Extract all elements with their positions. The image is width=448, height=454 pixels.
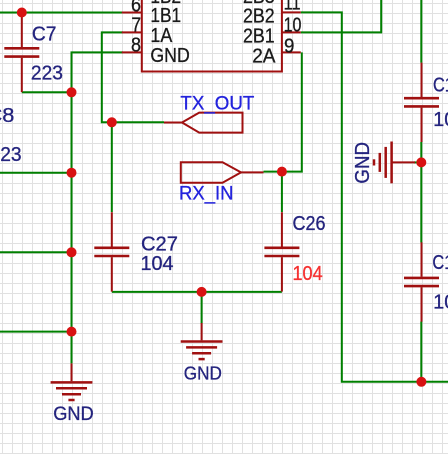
pin 9 stub bbox=[282, 51, 301, 53]
value 104 of C15 (clipped) bbox=[433, 109, 448, 131]
wire RX node down to C26 bbox=[281, 172, 283, 212]
ground symbol right (rotated) bbox=[374, 142, 415, 184]
junction RX node bbox=[277, 167, 287, 177]
wire left rail row B bbox=[0, 251, 72, 253]
value 104 of C16 (clipped) bbox=[433, 291, 448, 313]
pin number 8 bbox=[131, 35, 141, 57]
svg-text:2A: 2A bbox=[252, 45, 276, 67]
pin name 1B2 (cut at top) bbox=[150, 0, 181, 8]
label C26 bbox=[293, 213, 326, 235]
svg-text:C16: C16 bbox=[432, 252, 448, 274]
pin 11 stub bbox=[282, 11, 301, 13]
svg-text:GND: GND bbox=[53, 403, 93, 425]
wire C27-C26 bottom row bbox=[112, 291, 282, 293]
svg-text:1B1: 1B1 bbox=[150, 5, 181, 27]
wire right gnd link bbox=[414, 161, 421, 163]
label C15 (clipped at right) bbox=[433, 74, 448, 96]
svg-text:104: 104 bbox=[433, 109, 448, 131]
pin name 1A bbox=[150, 25, 172, 47]
svg-text:8: 8 bbox=[131, 35, 141, 57]
svg-text:C8: C8 bbox=[0, 105, 14, 127]
svg-text:TX_OUT: TX_OUT bbox=[180, 93, 254, 114]
capacitor C15 bbox=[404, 63, 439, 142]
net label RX_IN bbox=[179, 184, 234, 205]
value 223 of C7 bbox=[31, 63, 63, 85]
op-amp U1 body (IC box, top cut off) bbox=[142, 0, 282, 72]
net label TX_OUT bbox=[180, 93, 254, 114]
svg-text:2B2: 2B2 bbox=[243, 5, 275, 27]
svg-text:10: 10 bbox=[284, 15, 302, 37]
svg-text:104: 104 bbox=[293, 263, 323, 285]
pin name GND bbox=[150, 45, 189, 67]
svg-text:C26: C26 bbox=[293, 213, 326, 235]
pin name 2B3 (cut at top) bbox=[243, 0, 275, 8]
junction left rail A bbox=[67, 168, 77, 178]
svg-text:RX_IN: RX_IN bbox=[179, 184, 234, 205]
junction right gnd bbox=[416, 157, 426, 167]
svg-text:223: 223 bbox=[0, 144, 22, 166]
pin name 2A bbox=[252, 45, 276, 67]
svg-text:11: 11 bbox=[284, 0, 301, 15]
wire left rail row A bbox=[0, 172, 72, 174]
pin name 2B1 bbox=[243, 25, 275, 47]
svg-text:9: 9 bbox=[284, 35, 294, 57]
label C16 (clipped at right) bbox=[432, 252, 448, 274]
pin 6 stub bbox=[122, 12, 142, 14]
value 104 of C27 bbox=[141, 253, 174, 275]
label C7 bbox=[32, 23, 57, 45]
label GND right (rotated) bbox=[352, 142, 374, 184]
svg-text:GND: GND bbox=[352, 142, 374, 184]
svg-text:C7: C7 bbox=[32, 23, 57, 45]
junction mid gnd bbox=[197, 287, 207, 297]
svg-text:1A: 1A bbox=[150, 25, 172, 47]
label C27 bbox=[141, 234, 178, 256]
svg-text:C15: C15 bbox=[433, 74, 448, 96]
junction left rail C bbox=[67, 327, 77, 337]
pin number 6 bbox=[131, 0, 141, 17]
ground symbol left bbox=[51, 363, 93, 400]
wire left rail row C bbox=[0, 331, 72, 333]
pin 8 stub bbox=[122, 51, 142, 53]
value 223 of C8 (clipped) bbox=[0, 144, 22, 166]
svg-text:104: 104 bbox=[433, 291, 448, 313]
pin number 9 bbox=[284, 35, 294, 57]
capacitor C7 bbox=[4, 13, 39, 92]
ground symbol middle bbox=[181, 323, 223, 359]
wire mid-gnd stub bbox=[201, 292, 203, 324]
wire C7 bottom link bbox=[22, 91, 72, 93]
wire NET1 pin6 row bbox=[0, 12, 123, 14]
wire pin9 down to RX node bbox=[264, 52, 302, 171]
wire pin8 to left rail bbox=[72, 52, 124, 363]
capacitor C16 bbox=[404, 242, 439, 321]
junction bottom right bbox=[416, 377, 426, 387]
junction left rail B bbox=[67, 247, 77, 257]
label C8 (clipped at left) bbox=[0, 105, 14, 127]
value 104 of C26 (highlighted) bbox=[293, 263, 323, 285]
svg-text:GND: GND bbox=[150, 45, 189, 67]
wire C16 to bottom row bbox=[420, 322, 422, 382]
wire pin11 right-down-bottom bbox=[301, 12, 448, 381]
pin number 11 bbox=[284, 0, 301, 15]
wire TX node down to C27 bbox=[111, 122, 113, 212]
svg-text:223: 223 bbox=[31, 63, 63, 85]
label GND middle bbox=[184, 363, 222, 383]
junction at C7 top bbox=[17, 8, 27, 18]
wire C15 to C16 segment bbox=[420, 142, 422, 243]
wire pin10 right-up bbox=[301, 0, 381, 32]
pin name 1B1 bbox=[150, 5, 181, 27]
net flag RX_IN bbox=[181, 162, 264, 183]
junction pin8/C7 bbox=[67, 87, 77, 97]
junction TX node bbox=[107, 117, 117, 127]
capacitor C27 bbox=[94, 212, 129, 291]
pin 10 stub bbox=[282, 31, 301, 33]
net flag TX_OUT bbox=[164, 113, 243, 133]
capacitor C26 bbox=[264, 212, 299, 291]
svg-text:GND: GND bbox=[184, 363, 222, 383]
wire pin7 to TX node bbox=[102, 32, 164, 122]
wire top right drop to C15 bbox=[420, 0, 422, 63]
pin name 2B2 bbox=[243, 5, 275, 27]
pin 7 stub bbox=[122, 31, 142, 33]
svg-text:2B1: 2B1 bbox=[243, 25, 275, 47]
svg-text:104: 104 bbox=[141, 253, 174, 275]
label GND left bbox=[53, 403, 93, 425]
svg-text:7: 7 bbox=[131, 15, 141, 37]
pin number 7 bbox=[131, 15, 141, 37]
pin number 10 bbox=[284, 15, 302, 37]
